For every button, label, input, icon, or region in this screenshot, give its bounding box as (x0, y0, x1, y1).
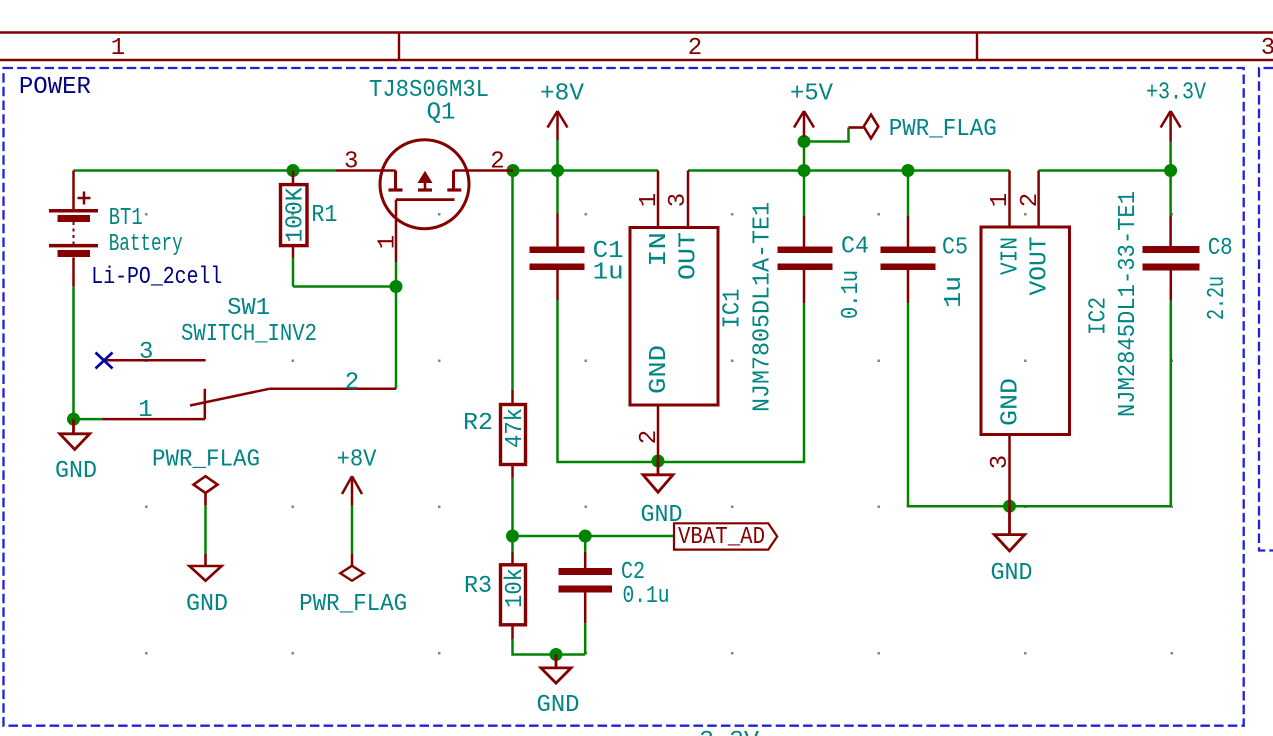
svg-text:NJM7805DL1A-TE1: NJM7805DL1A-TE1 (749, 202, 776, 412)
svg-text:2: 2 (345, 370, 359, 397)
battery BT1 (49, 171, 98, 287)
svg-text:R2: R2 (463, 410, 493, 437)
wire Q1 pin2 to IC1 pin1 (513, 169, 658, 172)
svg-text:2: 2 (688, 35, 702, 62)
svg-text:R3: R3 (464, 573, 492, 600)
svg-text:VIN: VIN (998, 237, 1025, 275)
sheet frame top border (0, 33, 1273, 61)
capacitor C1 (530, 214, 585, 301)
svg-text:3: 3 (344, 149, 358, 176)
wire +3.3V stub (1169, 142, 1172, 171)
svg-text:+8V: +8V (337, 447, 378, 474)
wire +5V stub (803, 137, 806, 142)
lever (190, 389, 269, 406)
contact vertical (204, 389, 207, 419)
pin 1 IN (657, 171, 660, 228)
transistor Q1 (336, 140, 513, 262)
wire R3 bottom corner (513, 639, 586, 655)
svg-text:GND: GND (55, 458, 97, 485)
body diode arrow (418, 171, 433, 183)
svg-text:2.2u: 2.2u (1204, 276, 1231, 320)
PWR_FLAG left symbol (189, 476, 221, 581)
svg-text:VBAT_AD: VBAT_AD (678, 524, 765, 551)
wire C5 top (907, 171, 910, 216)
wire R1 bottom vertical (292, 258, 295, 287)
wire R2 bottom to VBAT junction (511, 478, 514, 536)
resistor R3 (501, 552, 526, 639)
+3.3V power symbol (1161, 111, 1181, 142)
pin 2 GND (657, 405, 660, 461)
channel bars (389, 188, 403, 191)
svg-text:3: 3 (1261, 35, 1273, 62)
wire battery negative down (72, 287, 75, 419)
wire +8V bottom vertical (351, 506, 354, 554)
svg-text:PWR_FLAG: PWR_FLAG (152, 447, 260, 474)
wire PWR_FLAG link (804, 128, 849, 142)
PWR_FLAG top diamond (849, 115, 879, 139)
wires (green) (74, 128, 1171, 655)
wire C8 bottom (1170, 301, 1173, 507)
svg-text:1: 1 (987, 193, 1014, 207)
ground under IC2 (994, 506, 1024, 551)
adjacent sheet dashed rectangle (right, cut off) (1259, 68, 1273, 551)
pin 2 VOUT (1037, 171, 1040, 228)
svg-text:GND: GND (998, 378, 1025, 426)
wire C1 top (556, 140, 559, 214)
pin 2 (454, 169, 514, 172)
wire C8 top (1169, 171, 1172, 216)
svg-text:1: 1 (111, 35, 125, 62)
svg-text:C8: C8 (1208, 235, 1233, 262)
wire C2 top (584, 536, 587, 552)
svg-text:OUT: OUT (676, 232, 703, 280)
svg-text:C4: C4 (841, 234, 869, 261)
svg-text:1u: 1u (593, 260, 624, 287)
junction at C5 top (902, 164, 915, 177)
wire VBAT junction to label (513, 535, 675, 538)
svg-text:POWER: POWER (19, 74, 91, 101)
svg-text:GND: GND (537, 692, 580, 719)
wire R3 top (511, 536, 514, 552)
svg-text:PWR_FLAG: PWR_FLAG (299, 591, 407, 618)
wire C1 bottom to gnd rail (558, 300, 805, 462)
ground under IC1 (643, 461, 673, 492)
svg-text:SWITCH_INV2: SWITCH_INV2 (181, 321, 317, 348)
regulator IC2 box (981, 171, 1070, 507)
junction at R1 top (287, 164, 300, 177)
svg-text:+8V: +8V (540, 81, 585, 108)
svg-text:2: 2 (636, 430, 663, 444)
regulator IC1 box (630, 171, 718, 462)
junction at battery negative / switch pin1 (67, 413, 80, 426)
svg-text:3: 3 (987, 455, 1014, 469)
junction at Q1 gate / switch (390, 280, 403, 293)
capacitor C5 (881, 216, 936, 303)
ground bottom (R3/C2) (541, 655, 571, 684)
+8V power symbol top (548, 111, 568, 140)
capacitor C2 (559, 552, 613, 623)
junction at R2 bottom / R3 top (506, 530, 519, 543)
svg-text:1: 1 (375, 235, 402, 249)
resistor R1 (281, 171, 308, 258)
svg-text:VOUT: VOUT (1027, 237, 1054, 296)
+8V bottom arrow with PWR_FLAG (340, 476, 363, 581)
svg-text:NJM2845DL1-33-TE1: NJM2845DL1-33-TE1 (1115, 191, 1142, 417)
svg-text:GND: GND (186, 591, 228, 618)
svg-text:IC2: IC2 (1086, 297, 1113, 335)
junction at IC2 GND (1003, 500, 1016, 513)
svg-text:PWR_FLAG: PWR_FLAG (889, 116, 997, 143)
pin 1 (gate) (395, 200, 398, 262)
svg-text:IN: IN (646, 232, 673, 267)
wire Q1 gate below pin (395, 262, 398, 287)
pin 3 (336, 169, 396, 172)
junction at C4 top (798, 164, 811, 177)
junction at bottom ground (550, 648, 563, 661)
wire C4 top (803, 142, 806, 171)
hierarchical label VBAT_AD (674, 523, 777, 551)
svg-text:Battery: Battery (109, 231, 183, 258)
svg-text:Li-PO_2cell: Li-PO_2cell (91, 264, 222, 291)
svg-text:1: 1 (138, 397, 152, 424)
svg-text:Q1: Q1 (427, 100, 456, 127)
capacitor C8 (1143, 215, 1200, 301)
+5V power symbol (794, 111, 814, 137)
svg-text:1u: 1u (941, 276, 968, 308)
wire top rail battery to Q1 pin3 (74, 169, 337, 172)
wire IC2 pin2 to +3.3V corner (1039, 169, 1171, 172)
switch SW1 (102, 360, 396, 419)
svg-text:IC1: IC1 (720, 289, 747, 329)
svg-text:GND: GND (646, 345, 673, 394)
junction at C1 top (551, 164, 564, 177)
junction at Q1 drain / R2 branch (507, 164, 520, 177)
svg-text:+5V: +5V (790, 81, 834, 108)
svg-text:0.1u: 0.1u (623, 583, 670, 610)
capacitor C4 (778, 216, 833, 303)
svg-text:1: 1 (636, 193, 663, 207)
svg-text:2: 2 (1017, 193, 1044, 207)
wire pwr_flag left vertical (204, 506, 207, 554)
svg-text:3: 3 (665, 193, 692, 207)
pin 1 VIN (1008, 171, 1011, 228)
svg-text:GND: GND (991, 560, 1033, 587)
pin 3 GND (1008, 435, 1011, 507)
svg-text:0.1u: 0.1u (838, 270, 865, 319)
svg-text:SW1: SW1 (227, 295, 270, 322)
junction at IC1 GND (652, 455, 665, 468)
wire R2 top vertical (511, 171, 514, 391)
svg-text:10k: 10k (502, 568, 529, 608)
pin 3 OUT (687, 171, 690, 228)
wire gate junction down to switch pin2 (395, 287, 398, 389)
svg-text:R1: R1 (311, 202, 337, 229)
svg-text:47k: 47k (502, 408, 529, 448)
wire C2 bottom (584, 623, 587, 654)
pin 2 (269, 388, 396, 391)
ground under battery (60, 419, 90, 449)
left contact bar (394, 171, 397, 191)
junction at C2 top (579, 530, 592, 543)
pin 3 (105, 359, 205, 362)
svg-text:2: 2 (490, 149, 504, 176)
svg-text:3: 3 (139, 339, 153, 366)
grid dots (145, 213, 1173, 655)
right contact bar (452, 171, 455, 191)
svg-text:100K: 100K (283, 187, 310, 243)
junction at PWR_FLAG link (798, 135, 811, 148)
svg-text:C5: C5 (942, 235, 968, 262)
wire R1 bottom to gate junction (293, 285, 396, 288)
resistor R2 (501, 390, 526, 478)
no-connect X (96, 353, 113, 369)
svg-text:GND: GND (641, 502, 683, 529)
junction at C8 top (1164, 164, 1177, 177)
gate bar (396, 198, 455, 201)
svg-text:C2: C2 (621, 559, 645, 586)
svg-text:BT1: BT1 (109, 205, 143, 232)
svg-text:3.3V: 3.3V (699, 728, 760, 736)
wire battery to switch pin1 (74, 418, 103, 421)
wire C5 bottom to right gnd rail (908, 303, 1171, 506)
wire IC1 pin3 to IC2 pin1 (688, 169, 1010, 172)
svg-text:+3.3V: +3.3V (1146, 80, 1206, 107)
pin 1 (102, 418, 205, 421)
